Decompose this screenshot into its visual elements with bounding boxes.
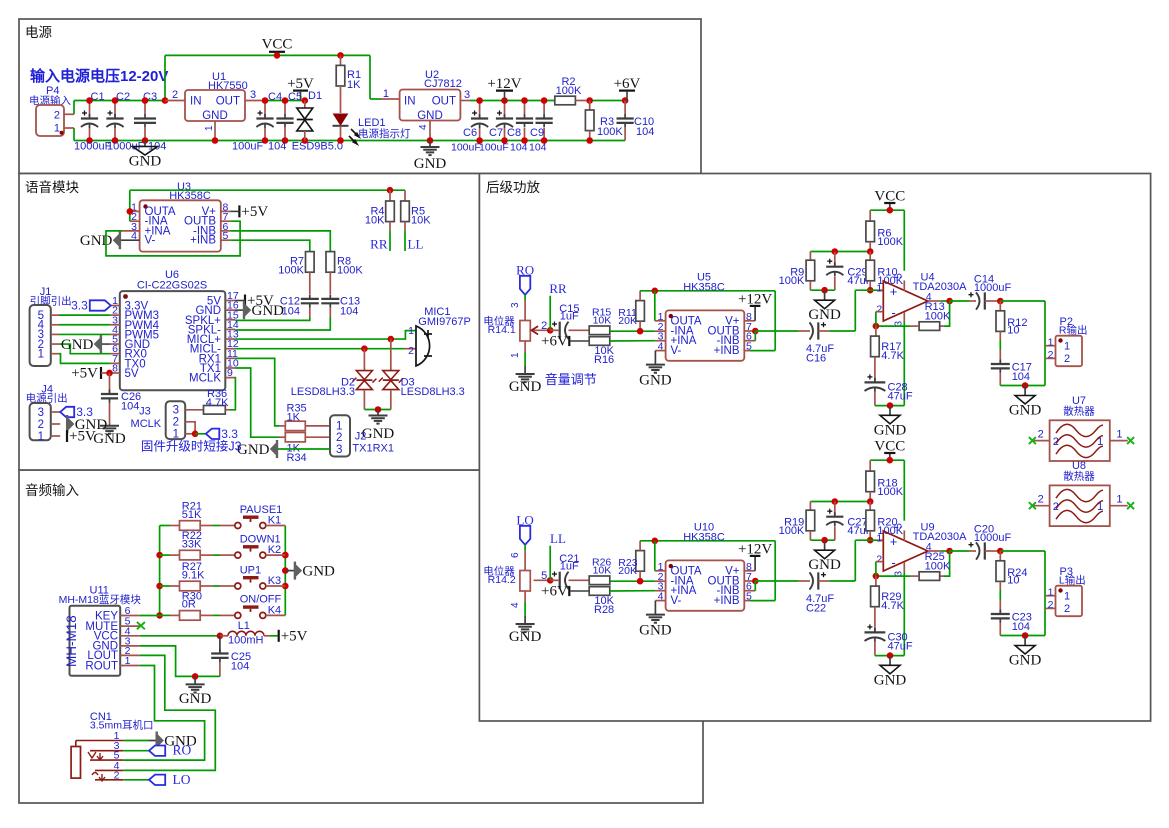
svg-text:+INB: +INB: [714, 345, 740, 357]
svg-text:9.1K: 9.1K: [182, 569, 205, 581]
svg-text:1: 1: [876, 533, 882, 545]
svg-text:IN: IN: [404, 96, 416, 108]
svg-text:1: 1: [1116, 494, 1122, 506]
svg-text:散热器: 散热器: [1063, 469, 1095, 482]
svg-text:C4: C4: [268, 91, 282, 103]
svg-text:R14.2: R14.2: [488, 574, 516, 586]
svg-text:1000uF: 1000uF: [74, 141, 112, 153]
svg-text:R16: R16: [594, 354, 614, 366]
svg-text:10: 10: [1007, 575, 1019, 587]
svg-text:K2: K2: [268, 544, 281, 556]
svg-text:+INB: +INB: [714, 595, 740, 607]
svg-text:C8: C8: [507, 127, 521, 139]
svg-text:R输出: R输出: [1059, 324, 1088, 337]
svg-text:C9: C9: [530, 127, 544, 139]
svg-text:电源: 电源: [25, 25, 52, 40]
svg-text:V-: V-: [671, 595, 682, 607]
svg-text:4: 4: [418, 124, 429, 130]
svg-text:TDA2030A: TDA2030A: [913, 281, 967, 293]
svg-text:GND: GND: [1009, 653, 1042, 669]
svg-text:3.3: 3.3: [71, 299, 88, 313]
svg-text:GND: GND: [874, 672, 907, 688]
svg-text:+: +: [890, 284, 898, 299]
svg-text:CI-C22GS02S: CI-C22GS02S: [137, 280, 207, 292]
svg-text:OUT: OUT: [216, 96, 240, 108]
svg-text:LL: LL: [408, 237, 424, 252]
svg-text:104: 104: [1012, 621, 1030, 633]
svg-text:3: 3: [173, 405, 179, 417]
svg-text:HK358C: HK358C: [683, 282, 725, 294]
svg-text:20K: 20K: [618, 565, 637, 577]
svg-text:100K: 100K: [779, 525, 805, 537]
svg-text:散热器: 散热器: [1063, 404, 1095, 417]
svg-text:+6V: +6V: [614, 76, 641, 92]
svg-text:+5V: +5V: [71, 365, 98, 381]
svg-text:4: 4: [510, 602, 521, 608]
svg-text:2: 2: [1038, 494, 1044, 506]
svg-text:GND: GND: [362, 426, 395, 442]
svg-text:1uF: 1uF: [560, 561, 579, 573]
svg-text:51K: 51K: [182, 509, 202, 521]
svg-text:2: 2: [1048, 349, 1054, 361]
svg-text:GND: GND: [639, 373, 672, 389]
svg-text:2: 2: [408, 345, 414, 357]
svg-text:GND: GND: [808, 557, 841, 573]
svg-text:104: 104: [121, 401, 139, 413]
svg-text:+12V: +12V: [738, 291, 772, 307]
svg-text:V-: V-: [671, 345, 682, 357]
svg-text:2: 2: [172, 89, 178, 101]
svg-text:100K: 100K: [556, 85, 582, 97]
svg-text:GND: GND: [237, 442, 270, 458]
svg-text:LESD8LH3.3: LESD8LH3.3: [401, 386, 465, 398]
svg-text:R28: R28: [594, 604, 614, 616]
svg-text:100K: 100K: [337, 265, 363, 277]
svg-text:2: 2: [1038, 429, 1044, 441]
svg-text:2: 2: [876, 303, 882, 315]
svg-text:R34: R34: [287, 452, 307, 464]
svg-text:100uF: 100uF: [479, 142, 509, 154]
svg-text:后级功放: 后级功放: [486, 180, 540, 195]
svg-text:RR: RR: [549, 281, 567, 296]
svg-text:GND: GND: [509, 629, 542, 645]
svg-text:1000uF: 1000uF: [974, 282, 1012, 294]
svg-text:4.7K: 4.7K: [206, 397, 229, 409]
svg-text:GND: GND: [808, 307, 841, 323]
svg-text:ROUT: ROUT: [85, 660, 118, 672]
svg-text:100mH: 100mH: [228, 635, 264, 647]
svg-text:语音模块: 语音模块: [25, 179, 79, 195]
svg-text:1: 1: [1097, 501, 1103, 513]
svg-text:TX1RX1: TX1RX1: [352, 442, 394, 454]
svg-text:RO: RO: [173, 743, 192, 758]
svg-text:C1: C1: [91, 91, 105, 103]
svg-text:K4: K4: [268, 604, 281, 616]
svg-text:1: 1: [1116, 429, 1122, 441]
svg-text:100K: 100K: [877, 486, 903, 498]
svg-text:100K: 100K: [278, 265, 304, 277]
svg-text:V-: V-: [145, 235, 156, 247]
svg-text:C6: C6: [463, 127, 477, 139]
svg-text:-: -: [891, 555, 895, 570]
svg-text:MH-M18蓝牙模块: MH-M18蓝牙模块: [59, 594, 142, 606]
svg-text:1: 1: [408, 325, 414, 337]
svg-text:L1: L1: [238, 620, 250, 632]
svg-text:1: 1: [1064, 341, 1070, 353]
svg-text:GND: GND: [252, 303, 285, 319]
svg-text:2: 2: [1048, 599, 1054, 611]
svg-text:2: 2: [336, 432, 342, 444]
svg-text:104: 104: [636, 126, 654, 138]
svg-text:GND: GND: [509, 379, 542, 395]
svg-text:GND: GND: [302, 564, 335, 580]
svg-text:2: 2: [54, 110, 60, 122]
svg-text:0R: 0R: [182, 599, 196, 611]
svg-text:3: 3: [336, 444, 342, 456]
svg-text:100K: 100K: [877, 236, 903, 248]
svg-text:TDA2030A: TDA2030A: [913, 531, 967, 543]
svg-text:+5V: +5V: [69, 429, 96, 445]
svg-text:100uF: 100uF: [232, 141, 263, 153]
svg-text:+12V: +12V: [487, 76, 521, 92]
svg-text:2: 2: [1053, 436, 1059, 448]
svg-text:1: 1: [38, 431, 44, 443]
svg-text:1K: 1K: [287, 412, 301, 424]
svg-text:+6V: +6V: [541, 333, 568, 349]
svg-text:33K: 33K: [182, 538, 202, 550]
svg-text:1: 1: [510, 352, 521, 358]
svg-text:MCLK: MCLK: [189, 373, 221, 385]
svg-text:HK358C: HK358C: [683, 532, 725, 544]
svg-text:电源指示灯: 电源指示灯: [358, 127, 411, 140]
svg-text:MCLK: MCLK: [131, 418, 162, 430]
svg-text:1: 1: [1097, 436, 1103, 448]
svg-text:10: 10: [1007, 325, 1019, 337]
svg-text:音频输入: 音频输入: [25, 482, 79, 498]
svg-text:20K: 20K: [618, 315, 637, 327]
svg-text:1: 1: [1048, 587, 1054, 599]
svg-text:3: 3: [250, 89, 256, 101]
svg-text:100uF: 100uF: [451, 142, 481, 154]
svg-text:104: 104: [529, 142, 547, 154]
svg-text:3: 3: [464, 89, 470, 101]
svg-text:C2: C2: [116, 91, 130, 103]
svg-text:GND: GND: [639, 623, 672, 639]
svg-text:1: 1: [1048, 337, 1054, 349]
svg-text:音量调节: 音量调节: [545, 372, 597, 387]
svg-text:LESD8LH3.3: LESD8LH3.3: [291, 386, 355, 398]
svg-text:47uF: 47uF: [888, 640, 913, 652]
svg-text:2: 2: [1064, 353, 1070, 365]
svg-text:+12V: +12V: [738, 541, 772, 557]
svg-text:2: 2: [38, 419, 44, 431]
svg-text:GND: GND: [179, 691, 212, 707]
svg-text:C7: C7: [489, 127, 503, 139]
svg-text:1: 1: [38, 349, 44, 361]
svg-text:4.7K: 4.7K: [881, 350, 904, 362]
svg-text:GND: GND: [417, 110, 443, 122]
svg-text:1000uF: 1000uF: [974, 532, 1012, 544]
svg-text:GMI9767P: GMI9767P: [418, 316, 471, 328]
svg-text:GND: GND: [1009, 403, 1042, 419]
svg-text:GND: GND: [93, 431, 126, 447]
svg-text:2: 2: [1064, 603, 1070, 615]
svg-text:输入电源电压12-20V: 输入电源电压12-20V: [30, 67, 168, 85]
svg-text:D1: D1: [308, 90, 322, 102]
svg-text:100K: 100K: [925, 561, 951, 573]
svg-text:GND: GND: [202, 110, 228, 122]
svg-text:47uF: 47uF: [888, 390, 913, 402]
svg-text:RR: RR: [370, 237, 388, 252]
svg-text:104: 104: [268, 141, 286, 153]
svg-text:OUT: OUT: [432, 96, 456, 108]
svg-text:ESD9B5.0: ESD9B5.0: [292, 141, 343, 153]
svg-text:L输出: L输出: [1059, 574, 1086, 587]
svg-text:1uF: 1uF: [560, 311, 579, 323]
svg-text:2: 2: [876, 553, 882, 565]
svg-text:R14.1: R14.1: [488, 324, 516, 336]
svg-text:5V: 5V: [125, 368, 139, 380]
svg-text:104: 104: [1012, 371, 1030, 383]
svg-text:3.5mm耳机口: 3.5mm耳机口: [90, 719, 154, 732]
svg-text:10K: 10K: [593, 565, 612, 577]
svg-text:10K: 10K: [411, 215, 431, 227]
svg-text:CJ7812: CJ7812: [424, 78, 462, 90]
svg-text:+: +: [890, 534, 898, 549]
svg-text:LO: LO: [173, 772, 191, 787]
svg-text:K3: K3: [268, 575, 281, 587]
svg-text:GND: GND: [414, 156, 447, 172]
svg-text:5: 5: [894, 273, 905, 279]
svg-text:C16: C16: [806, 352, 826, 364]
svg-text:GND: GND: [874, 422, 907, 438]
svg-text:5: 5: [894, 523, 905, 529]
svg-text:J2: J2: [355, 431, 367, 443]
svg-text:1: 1: [54, 123, 60, 135]
svg-text:MH-M18: MH-M18: [64, 615, 79, 667]
svg-text:+5V: +5V: [241, 204, 268, 220]
svg-text:10K: 10K: [365, 215, 385, 227]
svg-text:+5V: +5V: [281, 628, 308, 644]
svg-text:6: 6: [510, 552, 521, 558]
svg-text:K1: K1: [268, 515, 281, 527]
svg-text:104: 104: [282, 306, 300, 318]
svg-text:3: 3: [38, 407, 44, 419]
svg-text:1: 1: [876, 283, 882, 295]
svg-text:GND: GND: [129, 154, 162, 170]
svg-text:+INB: +INB: [190, 235, 216, 247]
svg-text:-: -: [891, 305, 895, 320]
svg-text:2: 2: [1053, 501, 1059, 513]
svg-text:UP1: UP1: [240, 564, 261, 576]
svg-text:GND: GND: [80, 233, 113, 249]
svg-text:1K: 1K: [347, 79, 361, 91]
svg-text:104: 104: [231, 660, 249, 672]
svg-text:固件升级时短接J3: 固件升级时短接J3: [141, 438, 242, 453]
svg-text:GND: GND: [61, 337, 94, 353]
svg-text:2: 2: [173, 417, 179, 429]
svg-text:IN: IN: [190, 96, 202, 108]
svg-text:1: 1: [204, 125, 215, 131]
svg-text:+6V: +6V: [541, 583, 568, 599]
svg-text:1: 1: [336, 421, 342, 433]
svg-text:10K: 10K: [593, 315, 612, 327]
svg-text:1: 1: [1064, 591, 1070, 603]
svg-text:104: 104: [510, 142, 528, 154]
svg-text:100K: 100K: [925, 311, 951, 323]
svg-text:C22: C22: [806, 602, 826, 614]
svg-text:3: 3: [510, 302, 521, 308]
svg-text:104: 104: [340, 306, 358, 318]
svg-text:LL: LL: [550, 531, 566, 546]
svg-text:J3: J3: [139, 406, 151, 418]
svg-text:4.7K: 4.7K: [881, 600, 904, 612]
svg-text:100K: 100K: [779, 275, 805, 287]
svg-text:100K: 100K: [597, 126, 623, 138]
svg-text:VCC: VCC: [262, 37, 293, 53]
